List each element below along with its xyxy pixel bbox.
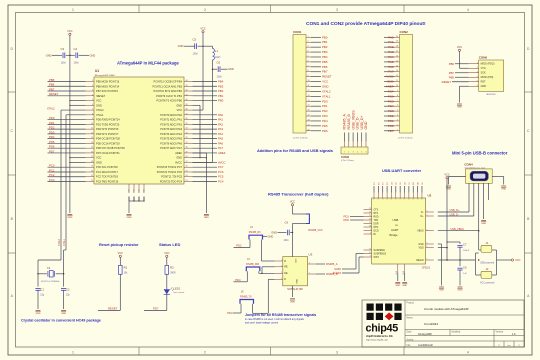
wire USB_VBUS: [438, 183, 480, 250]
svg-text:PD3: PD3: [322, 114, 328, 118]
svg-text:1: 1: [72, 351, 74, 355]
svg-text:2: 2: [477, 67, 478, 69]
capacitor C9: [271, 221, 293, 243]
svg-text:GND: GND: [322, 85, 328, 89]
svg-text:2: 2: [204, 351, 206, 355]
svg-text:RE: RE: [284, 266, 288, 269]
svg-text:PA5: PA5: [218, 137, 224, 141]
svg-text:22: 22: [91, 180, 93, 182]
svg-text:11: 11: [396, 80, 398, 82]
svg-text:C2: C2: [66, 288, 70, 292]
svg-text:DCD: DCD: [374, 230, 379, 232]
svg-text:CON1: CON1: [293, 30, 302, 34]
svg-text:C4: C4: [74, 47, 78, 51]
svg-text:4: 4: [92, 94, 93, 96]
svg-text:VCC powered: VCC powered: [480, 282, 495, 285]
wire XTAL2: [38, 110, 86, 274]
svg-text:GND: GND: [176, 103, 182, 107]
svg-text:2: 2: [92, 85, 93, 87]
svg-text:File:: File:: [407, 345, 412, 347]
CON6 net labels and wires: [442, 62, 469, 84]
svg-text:7: 7: [308, 65, 309, 67]
svg-text:6: 6: [397, 105, 398, 107]
svg-text:REGIN: REGIN: [416, 260, 424, 262]
svg-text:PA0: PA0: [218, 113, 224, 117]
svg-text:PA3: PA3: [388, 50, 394, 54]
svg-text:PC4: PC4: [218, 180, 224, 184]
svg-text:PD5 OC1A PCINT29: PD5 OC1A PCINT29: [96, 141, 120, 145]
U1 left net labels and wires: [48, 78, 86, 182]
svg-text:8: 8: [308, 70, 309, 72]
svg-text:1: 1: [477, 62, 478, 64]
svg-text:35: 35: [186, 123, 188, 125]
svg-text:1uF: 1uF: [463, 273, 467, 275]
svg-text:R: R: [284, 260, 286, 263]
svg-text:1: 1: [72, 8, 74, 12]
svg-text:39: 39: [186, 104, 188, 106]
jumper J7 RS485_VCC: [293, 206, 324, 232]
jumper J1 USB powered: [476, 241, 497, 265]
title block text: [407, 302, 521, 347]
svg-text:3: 3: [353, 151, 354, 153]
svg-text:20: 20: [91, 170, 93, 172]
svg-text:2: 2: [348, 151, 349, 153]
svg-text:Status LED: Status LED: [159, 242, 180, 247]
svg-text:PD7: PD7: [49, 149, 55, 153]
svg-text:VCC: VCC: [290, 200, 295, 203]
svg-text:PC3 TMS PCINT19: PC3 TMS PCINT19: [96, 180, 119, 184]
svg-text:GND: GND: [176, 156, 182, 160]
svg-text:10: 10: [396, 85, 398, 87]
jumper J4 RS485_DIR: [234, 258, 275, 282]
inductor L1: [203, 46, 221, 69]
svg-text:PC2: PC2: [49, 173, 55, 177]
svg-text:PCINT3 ADC3 PA3: PCINT3 ADC3 PA3: [160, 127, 182, 131]
VCC for R1: [118, 252, 123, 258]
svg-text:C3: C3: [61, 47, 65, 51]
svg-text:6: 6: [309, 263, 310, 265]
svg-text:PC4: PC4: [388, 104, 394, 108]
CON1 net labels and wires: [311, 35, 332, 132]
svg-text:17: 17: [91, 156, 93, 158]
svg-text:PC2: PC2: [388, 114, 394, 118]
jumper J3 RS485_RX: [234, 226, 275, 261]
svg-text:PD6: PD6: [322, 129, 328, 133]
svg-text:G3: G3: [391, 182, 393, 185]
wire AREF/GND to ground: [193, 153, 207, 213]
svg-text:PD3 INT1 PCINT27: PD3 INT1 PCINT27: [96, 132, 119, 136]
svg-text:Reset pickup resistor: Reset pickup resistor: [99, 242, 139, 247]
svg-text:1: 1: [308, 36, 309, 38]
svg-text:16: 16: [91, 151, 93, 153]
heading: Mini 5-pin USB-B connector: [452, 151, 508, 156]
svg-text:11: 11: [369, 252, 371, 254]
U1 right net labels and wires: [193, 80, 226, 184]
svg-text:1: 1: [281, 260, 282, 262]
svg-text:GND: GND: [96, 103, 102, 107]
svg-text:PD1: PD1: [49, 121, 55, 125]
svg-text:DSR: DSR: [374, 223, 379, 225]
svg-text:Mini 5-pin USB-B connector: Mini 5-pin USB-B connector: [452, 151, 508, 156]
wire VCC vertical left rail: [69, 35, 85, 213]
svg-text:XTAL2: XTAL2: [322, 89, 331, 93]
svg-text:HC49 14.7456MHz: HC49 14.7456MHz: [41, 281, 60, 283]
svg-text:VCC: VCC: [444, 173, 449, 176]
wire CON4 GND pin: [483, 183, 485, 219]
heading: ATmega644P in MLF44 package: [117, 60, 179, 65]
svg-text:12: 12: [396, 75, 398, 77]
svg-text:VCC: VCC: [294, 259, 296, 264]
ground below C2: [61, 310, 66, 312]
svg-text:18: 18: [91, 161, 93, 163]
svg-text:PCINT11 OC2A AIN1 PB3: PCINT11 OC2A AIN1 PB3: [152, 84, 182, 88]
svg-text:VCC: VCC: [200, 27, 205, 30]
U2 left pins: [364, 208, 387, 259]
svg-text:PCINT1 ADC1 PA1: PCINT1 ADC1 PA1: [160, 118, 182, 122]
ground U3: [290, 298, 295, 300]
svg-text:ATmega644P in MLF44 package: ATmega644P in MLF44 package: [117, 60, 179, 65]
svg-text:PD0: PD0: [322, 99, 328, 103]
svg-text:PD2: PD2: [236, 244, 242, 248]
svg-text:!RESET: !RESET: [96, 94, 106, 98]
svg-text:GND: GND: [36, 313, 41, 315]
svg-text:PC1: PC1: [388, 119, 394, 123]
svg-text:PD6: PD6: [49, 145, 55, 149]
svg-text:XTAL2: XTAL2: [58, 238, 61, 246]
svg-text:SN75ALS176D: SN75ALS176D: [287, 288, 303, 291]
op IC U2 CP2102 USB to UART bridge body: [372, 194, 432, 270]
svg-text:CON3: CON3: [341, 155, 349, 159]
svg-text:von: von: [507, 345, 510, 347]
svg-text:PCINT10 INT2 AIN0 PB2: PCINT10 INT2 AIN0 PB2: [154, 89, 183, 93]
U1 left pins, pin numbers and pin names: [86, 80, 126, 184]
heading: crystal oscillator note: [21, 319, 101, 323]
svg-text:XTAL2: XTAL2: [47, 106, 55, 110]
svg-text:PD4: PD4: [235, 278, 241, 282]
VCC supply symbol above C5: [200, 27, 205, 32]
label XTAL2: [47, 106, 55, 110]
svg-text:C1: C1: [40, 288, 44, 292]
U2 RXD/TXD wires to PD1/PD0: [344, 215, 364, 223]
svg-text:PCINT22 TOSC1 PC6: PCINT22 TOSC1 PC6: [157, 170, 183, 174]
svg-text:RTS: RTS: [374, 213, 379, 215]
svg-text:26: 26: [369, 219, 371, 221]
svg-text:XTAL1: XTAL1: [63, 238, 66, 246]
svg-text:G0: G0: [404, 182, 406, 185]
svg-text:PC0: PC0: [49, 164, 55, 168]
svg-text:PB6: PB6: [49, 83, 55, 87]
svg-text:U3: U3: [309, 253, 313, 257]
svg-text:GND: GND: [268, 234, 274, 238]
CON6 GND wire: [460, 86, 469, 102]
svg-text:PD1: PD1: [322, 104, 328, 108]
svg-text:GND: GND: [90, 53, 96, 57]
svg-text:P2: P2: [378, 182, 380, 184]
op IC U3 SN75ALS176D body: [283, 253, 313, 291]
svg-text:100n: 100n: [284, 240, 290, 242]
svg-text:C7: C7: [463, 243, 467, 247]
svg-text:MISO (PDO): MISO (PDO): [481, 63, 495, 66]
svg-text:PC5: PC5: [218, 175, 224, 179]
ground CON4 shield right: [501, 185, 506, 187]
svg-text:PB0: PB0: [218, 99, 224, 103]
svg-text:PC0: PC0: [388, 124, 394, 128]
VCC for RS485: [290, 200, 295, 206]
VCC supply symbol top-left: [67, 30, 72, 36]
wire U2 GND pin to ground: [438, 244, 442, 286]
svg-text:25: 25: [369, 215, 371, 217]
svg-text:PCINT20 TDO PC4: PCINT20 TDO PC4: [160, 180, 183, 184]
svg-text:100n: 100n: [61, 62, 67, 65]
svg-text:PD3: PD3: [227, 311, 233, 315]
svg-text:5: 5: [361, 151, 362, 153]
svg-text:PD1 TXD0 PCINT25: PD1 TXD0 PCINT25: [96, 122, 120, 126]
svg-text:GND: GND: [228, 67, 234, 71]
U3 right pins A and B with net labels: [308, 262, 338, 276]
svg-text:PD7 OC2A PCINT31: PD7 OC2A PCINT31: [96, 151, 120, 155]
svg-text:PC1: PC1: [49, 168, 55, 172]
jumper J5 RS485_TX: [227, 279, 274, 315]
svg-text:C5: C5: [193, 38, 197, 42]
wire USB_D-: [438, 183, 474, 216]
svg-text:7: 7: [397, 100, 398, 102]
svg-text:1: 1: [370, 229, 371, 231]
svg-text:GND: GND: [204, 217, 209, 219]
heading: CON1 and CON2 provide ATmega644P DIP40 pinout!: [306, 21, 426, 27]
svg-text:PD6 ICP OC2B PCINT30: PD6 ICP OC2B PCINT30: [96, 146, 125, 150]
svg-text:XTAL2: XTAL2: [96, 108, 104, 112]
svg-text:R2: R2: [170, 266, 174, 270]
svg-text:PB4: PB4: [322, 55, 328, 59]
svg-text:Date:: Date:: [407, 331, 413, 334]
svg-text:27: 27: [186, 161, 188, 163]
svg-text:27: 27: [369, 222, 371, 224]
connector CON4 mini USB socket: [464, 162, 492, 183]
svg-text:PCINT5 ADC5 PA5: PCINT5 ADC5 PA5: [160, 137, 182, 141]
svg-text:GND: GND: [67, 217, 72, 219]
svg-text:390R: 390R: [170, 273, 176, 275]
svg-text:9: 9: [370, 256, 371, 258]
svg-text:8: 8: [92, 113, 93, 115]
title block: [362, 300, 524, 347]
svg-text:20 Pin 2.54mm: 20 Pin 2.54mm: [398, 138, 413, 140]
svg-text:PA2: PA2: [388, 45, 394, 49]
svg-text:20: 20: [396, 36, 398, 38]
svg-text:C6: C6: [217, 61, 221, 65]
svg-text:44: 44: [186, 80, 188, 82]
svg-text:PD0 RXD0 PCINT24: PD0 RXD0 PCINT24: [96, 118, 120, 122]
capacitor C6: [457, 260, 467, 286]
svg-text:7: 7: [309, 273, 310, 275]
svg-text:PA7: PA7: [388, 70, 394, 74]
op IC U1 ATmega644P-20MU body: [94, 69, 184, 184]
svg-text:24: 24: [369, 212, 371, 214]
svg-text:P0: P0: [387, 182, 389, 184]
CON2 net labels and wires: [384, 35, 395, 132]
svg-text:17: 17: [308, 115, 310, 117]
svg-text:41: 41: [186, 94, 188, 96]
svg-text:PC0 SCL PCINT16: PC0 SCL PCINT16: [96, 165, 118, 169]
LED LED1: [164, 274, 185, 294]
wire VCC to VDD/REGIN: [438, 179, 448, 260]
svg-text:USB powered: USB powered: [480, 262, 495, 265]
svg-text:PB1: PB1: [218, 94, 224, 98]
heading: Status LED: [159, 242, 180, 247]
svg-text:D-: D-: [421, 212, 424, 214]
svg-text:PA6: PA6: [388, 65, 394, 69]
svg-text:PC7: PC7: [388, 89, 394, 93]
svg-text:38: 38: [186, 109, 188, 111]
svg-text:L1: L1: [215, 49, 219, 53]
svg-text:PB2: PB2: [322, 45, 328, 49]
svg-text:PCINT4 ADC4 PA4: PCINT4 ADC4 PA4: [160, 132, 182, 136]
ground right of U1: [204, 214, 209, 216]
ground below C6: [458, 286, 463, 288]
svg-text:14: 14: [91, 142, 93, 144]
svg-text:PD5: PD5: [49, 140, 55, 144]
svg-text:MOSI (PDI): MOSI (PDI): [481, 76, 494, 79]
svg-text:1: 1: [92, 80, 93, 82]
svg-text:VTG: VTG: [481, 67, 486, 70]
svg-text:UART: UART: [391, 228, 399, 232]
svg-text:AVCC: AVCC: [175, 160, 182, 164]
svg-text:PB7: PB7: [49, 87, 55, 91]
svg-text:17: 17: [396, 51, 398, 53]
svg-text:G2: G2: [396, 182, 398, 185]
svg-text:PCINT6 ADC6 PA6: PCINT6 ADC6 PA6: [160, 141, 182, 145]
svg-text:VCC: VCC: [515, 258, 521, 262]
svg-text:U2: U2: [428, 194, 432, 198]
svg-text:PD7: PD7: [153, 307, 159, 311]
svg-text:PCINT21 TDI PC5: PCINT21 TDI PC5: [161, 175, 182, 179]
svg-text:2: 2: [204, 8, 206, 12]
svg-text:Crystal oscillator in convenie: Crystal oscillator in convenient HC49 pa…: [21, 319, 101, 323]
svg-text:PB5 MOSI PCINT13: PB5 MOSI PCINT13: [96, 80, 120, 84]
wire VCC to U1 VCC pin: [193, 33, 204, 110]
svg-text:GND: GND: [418, 244, 423, 246]
ground U2 gnd row: [439, 286, 444, 288]
svg-text:Crumb module with ATmega644P: Crumb module with ATmega644P: [424, 307, 469, 311]
heading: Reset pickup resistor: [99, 242, 139, 247]
svg-text:AVCC: AVCC: [386, 75, 394, 79]
svg-text:13: 13: [308, 95, 310, 97]
svg-text:23: 23: [369, 208, 371, 210]
svg-text:chip45 GmbH & Co. KG: chip45 GmbH & Co. KG: [366, 335, 393, 338]
svg-text:13: 13: [396, 70, 398, 72]
svg-text:PD3: PD3: [49, 130, 55, 134]
svg-text:PB3: PB3: [218, 84, 224, 88]
VCC above U2 right: [444, 173, 449, 179]
svg-text:USB_VBUS: USB_VBUS: [451, 228, 465, 231]
svg-text:U1: U1: [95, 69, 99, 73]
svg-text:SUSPEND2: SUSPEND2: [374, 253, 387, 255]
svg-text:PB1: PB1: [322, 40, 328, 44]
svg-text:3: 3: [477, 71, 478, 73]
svg-text:PC3: PC3: [49, 178, 55, 182]
svg-text:6: 6: [477, 85, 478, 87]
svg-text:Crumb644: Crumb644: [424, 322, 438, 326]
svg-text:5: 5: [308, 55, 309, 57]
svg-text:RESET: RESET: [49, 92, 59, 96]
svg-text:LED1: LED1: [174, 287, 181, 291]
svg-text:4: 4: [467, 351, 469, 355]
svg-text:PA7: PA7: [218, 146, 224, 150]
svg-text:RST: RST: [481, 81, 486, 84]
svg-text:PB3: PB3: [322, 50, 328, 54]
svg-text:Project:: Project:: [407, 302, 415, 305]
capacitor C1: [35, 274, 44, 309]
svg-text:CTS: CTS: [374, 209, 379, 211]
svg-text:DTR: DTR: [374, 227, 379, 229]
svg-text:PD7: PD7: [388, 129, 394, 133]
svg-text:29: 29: [186, 151, 188, 153]
wire main VCC line: [438, 258, 521, 262]
svg-text:4: 4: [426, 211, 427, 213]
connector CON2 20 pin header: [395, 30, 413, 140]
U2 top pins with rotated net labels: [374, 181, 424, 199]
svg-text:RS485_A: RS485_A: [326, 262, 338, 266]
svg-text:4: 4: [308, 51, 309, 53]
svg-text:PC1 SDA PCINT17: PC1 SDA PCINT17: [96, 170, 119, 174]
svg-text:PA2: PA2: [218, 122, 224, 126]
svg-text:PB0: PB0: [322, 35, 328, 39]
svg-text:34: 34: [186, 128, 188, 130]
svg-text:PCINT8 T0 XCK0 PB0: PCINT8 T0 XCK0 PB0: [156, 99, 182, 103]
svg-text:GND: GND: [387, 80, 393, 84]
capacitor C8: [212, 61, 234, 79]
svg-text:R1: R1: [124, 266, 128, 270]
svg-text:RS485_DIR: RS485_DIR: [246, 263, 259, 266]
svg-text:PCINT7 ADC7 PA7: PCINT7 ADC7 PA7: [160, 146, 182, 150]
svg-text:J2: J2: [486, 267, 489, 271]
svg-text:PA5: PA5: [388, 60, 394, 64]
ground below CON6: [457, 103, 462, 105]
svg-text:ATmega644P-20MU: ATmega644P-20MU: [95, 74, 115, 77]
svg-text:5: 5: [426, 229, 427, 231]
svg-text:36: 36: [186, 118, 188, 120]
svg-text:RS485 Transceiver (half duplex: RS485 Transceiver (half duplex): [268, 191, 329, 196]
svg-text:PB7 SCK PCINT15: PB7 SCK PCINT15: [96, 89, 119, 93]
svg-text:PCINT0 ADC0 PA0: PCINT0 ADC0 PA0: [160, 113, 182, 117]
svg-text:XTAL1: XTAL1: [96, 113, 104, 117]
svg-text:3: 3: [336, 8, 338, 12]
svg-text:9: 9: [92, 118, 93, 120]
svg-text:GND: GND: [61, 313, 66, 315]
svg-text:5: 5: [477, 80, 478, 82]
svg-text:VCC: VCC: [96, 99, 102, 103]
svg-text:10: 10: [308, 80, 310, 82]
svg-text:GND: GND: [178, 44, 184, 48]
svg-text:PD0: PD0: [344, 218, 350, 222]
svg-text:25: 25: [186, 170, 188, 172]
svg-text:PB6: PB6: [449, 62, 455, 66]
svg-text:CON2: CON2: [400, 30, 409, 34]
svg-text:USB-UART converter: USB-UART converter: [382, 168, 422, 173]
svg-text:GND: GND: [271, 231, 277, 235]
svg-text:4: 4: [397, 115, 398, 117]
svg-text:USB_D-: USB_D-: [450, 214, 459, 217]
svg-text:PA1: PA1: [388, 40, 394, 44]
ground CON4 pin4: [481, 220, 486, 222]
svg-text:33: 33: [186, 132, 188, 134]
svg-text:D: D: [284, 278, 286, 281]
svg-text:100n: 100n: [74, 62, 80, 65]
svg-text:PD4 OC1B PCINT28: PD4 OC1B PCINT28: [96, 137, 120, 141]
svg-text:AVRISP6: AVRISP6: [486, 93, 496, 96]
connector CON1 20 pin header: [293, 30, 311, 140]
svg-text:5: 5: [92, 99, 93, 101]
svg-text:P3: P3: [374, 182, 376, 184]
